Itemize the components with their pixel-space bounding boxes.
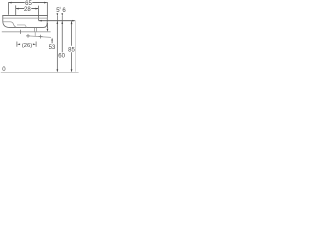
svg-text:53: 53 [49, 45, 56, 51]
footnote tick after label 5 [59, 7, 61, 9]
extension line left of 65 [8, 2, 10, 15]
extension line right of 65 [46, 2, 48, 15]
wall extension line [75, 20, 77, 71]
dimension 28 line [16, 8, 39, 10]
height line 60 [61, 21, 63, 53]
dimension 65 arrowheads [9, 2, 12, 4]
extension line left of 28 [15, 5, 17, 15]
height line 85 [71, 21, 73, 71]
washbasin inner rim line [3, 17, 47, 19]
supply reference line (gray) [2, 31, 51, 33]
waste pipe line (sloped, gray) [28, 36, 51, 38]
waste cross 2 [39, 35, 43, 39]
reference dimension (26) [16, 42, 18, 47]
dimension 28 arrowheads [16, 8, 19, 10]
height callout 53 arrow [51, 38, 53, 41]
bowl sump step [17, 25, 26, 27]
svg-text:60: 60 [58, 54, 65, 60]
washbasin outer profile [3, 16, 48, 28]
supply connection cross [20, 30, 22, 34]
dimension 65 line [9, 2, 47, 4]
waste cross 1 [26, 34, 30, 38]
drain tailpipe [34, 28, 36, 32]
svg-text:(26): (26) [22, 43, 32, 49]
svg-text:28: 28 [24, 7, 31, 13]
svg-text:85: 85 [68, 48, 75, 54]
washbasin top rim line [2, 15, 48, 17]
height line 57 [56, 21, 58, 72]
floor line [1, 72, 79, 74]
extension line right of 28 [37, 6, 39, 21]
drain connector vertical [34, 32, 36, 36]
height arrow at supply line [46, 23, 48, 28]
washbasin apron underside [3, 22, 16, 27]
top horizontal dimension line to wall [39, 20, 75, 22]
